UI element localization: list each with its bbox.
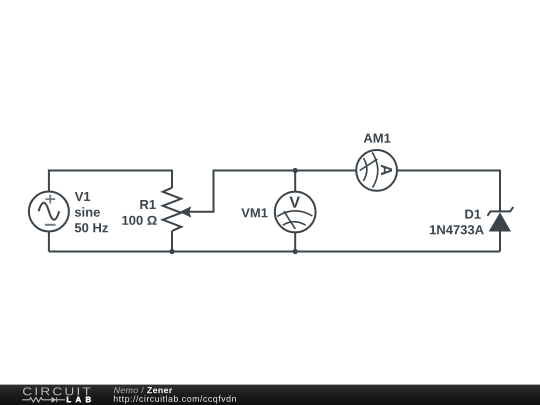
label V1 xyxy=(75,192,90,201)
resistor R1 (potentiometer) xyxy=(163,188,181,231)
footer logo diode xyxy=(52,397,57,403)
wire R1 bottom lead xyxy=(171,231,173,252)
label VM1 xyxy=(241,208,267,217)
wire VM1 bottom lead xyxy=(294,232,296,251)
label 50 Hz xyxy=(75,223,108,232)
footer logo CIRCUIT xyxy=(23,387,90,395)
voltage source V1 xyxy=(29,192,69,232)
R1 wiper arrow xyxy=(180,206,192,217)
footer url xyxy=(114,395,236,403)
label 100 ohm xyxy=(122,216,156,225)
footer title slash xyxy=(141,387,143,393)
voltmeter VM1 xyxy=(275,192,316,233)
footer bar xyxy=(0,385,540,405)
label D1 xyxy=(465,210,480,219)
label AM1 xyxy=(364,134,391,143)
node junction dot VM1-top xyxy=(293,168,298,173)
node junction dot R1-bottom xyxy=(169,249,174,254)
wire D1 bottom lead xyxy=(499,232,501,252)
wire V1 bottom lead xyxy=(48,232,50,252)
wire top-left rail V1 to R1 xyxy=(49,171,172,192)
footer title Zener xyxy=(147,387,172,393)
ammeter AM1 xyxy=(356,150,397,191)
node junction dot VM1-bottom xyxy=(293,249,298,254)
footer logo LAB xyxy=(67,397,91,403)
footer title Nemo xyxy=(114,387,138,393)
label 1N4733A xyxy=(430,225,484,234)
footer logo schematic squiggle xyxy=(22,398,65,403)
label sine xyxy=(75,207,100,217)
label R1 xyxy=(140,200,155,209)
zener diode D1 xyxy=(488,207,514,232)
wire top rail AM1 to right corner xyxy=(397,171,500,212)
wire bottom rail xyxy=(49,251,500,253)
wire VM1 top lead xyxy=(294,171,296,192)
wire wiper to top rail xyxy=(188,171,356,212)
